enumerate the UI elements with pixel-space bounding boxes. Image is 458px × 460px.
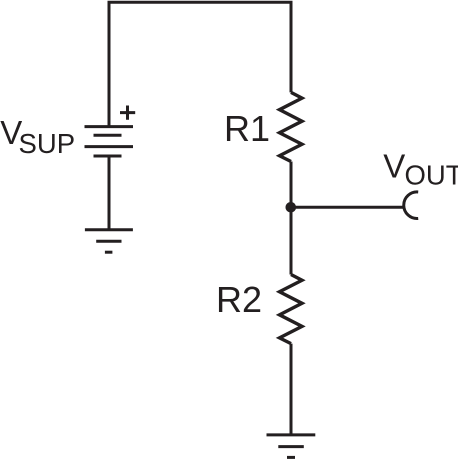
svg-text:OUT: OUT [405, 159, 458, 190]
wire from battery + terminal up, across top, down to resistor R1 [109, 2, 291, 127]
output terminal (open arc) [404, 192, 418, 219]
svg-text:R2: R2 [216, 279, 262, 320]
svg-text:SUP: SUP [19, 128, 76, 159]
label V_SUP [0, 114, 75, 159]
resistor R1 [280, 92, 303, 161]
svg-text:V: V [383, 148, 405, 185]
wire from R2 to ground [290, 344, 293, 435]
node: R1/R2 junction [286, 202, 297, 213]
wire from battery - terminal to ground [108, 156, 111, 230]
ground (battery) [85, 230, 133, 253]
battery + polarity mark [120, 106, 135, 120]
ground (R2) [267, 435, 316, 458]
battery V_SUP [85, 127, 134, 156]
wire from R1 to node [290, 162, 293, 208]
wire from node to output terminal [291, 206, 405, 209]
label V_OUT [383, 148, 458, 191]
resistor R2 [280, 275, 303, 344]
wire from node to resistor R2 [290, 207, 293, 274]
svg-text:R1: R1 [224, 108, 270, 149]
